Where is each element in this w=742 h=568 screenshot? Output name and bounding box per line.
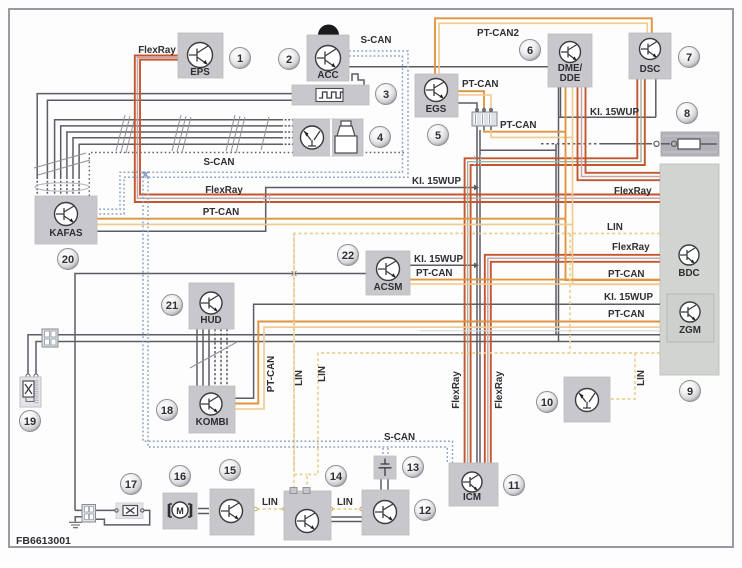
module DME/DDE box [548,34,592,87]
transistor icon BDC [679,245,699,265]
svg-text:FlexRay: FlexRay [614,186,652,197]
wire: FlexRay DME/DDE to BDC [586,87,661,173]
plug connector X19 top [42,329,58,347]
svg-text:PT-CAN: PT-CAN [608,269,644,280]
wire: faint link line to BDC [420,330,660,332]
svg-text:LIN: LIN [262,497,278,508]
svg-text:2: 2 [286,54,292,66]
wire: S-CAN dotted pair ACC to KAFAS [97,56,403,209]
wire: PT-CAN orange risers under DME down to BDC [566,87,661,280]
svg-text:ZGM: ZGM [679,325,701,336]
wire: ground and loop at connector 17 [75,510,150,525]
svg-text:KI. 15WUP: KI. 15WUP [590,107,639,118]
transistor icon KOMBI [200,393,222,415]
svg-text:11: 11 [508,480,520,492]
connector X at item 17 [115,503,144,519]
slash marks on sensor bundle [34,115,269,175]
svg-text:LIN: LIN [607,222,623,233]
module ACSM box [366,251,410,295]
svg-text:S-CAN: S-CAN [203,157,234,168]
wire: PT-CAN long pair KAFAS to DME risers [97,218,566,220]
svg-text:FlexRay: FlexRay [138,45,176,56]
svg-text:PT-CAN: PT-CAN [416,268,452,279]
wire: mechanical double link 14-12 [331,517,362,522]
svg-text:ACC: ACC [317,70,338,81]
wire: PT-CAN pair KOMBI riser to BDC [235,322,660,404]
svg-text:KI. 15WUP: KI. 15WUP [604,292,653,303]
switch unit 19 with X symbol [20,377,41,407]
module EGS box [415,74,458,117]
svg-text:HUD: HUD [200,315,221,326]
svg-text:LIN: LIN [337,497,353,508]
wire: dark pair from connector X19 to BDC [57,334,660,336]
wire: LIN bus horizontal to BDC (upper) [294,234,660,471]
wire: dark KI.15WUP from ACC right to DME/DSC column [349,67,561,118]
wire: dark line ACSM left to riser down to connector 17 [75,274,366,511]
PT-CAN star connector [472,108,497,130]
svg-text:10: 10 [541,397,553,409]
svg-text:FlexRay: FlexRay [451,371,462,409]
wire: FlexRay DSC down-left-down to ICM [465,79,638,463]
transistor icon DSC [640,39,661,60]
svg-text:LIN: LIN [636,370,647,386]
junction marker S-CAN [143,172,149,178]
module EPS box [178,33,223,78]
wire: PT-CAN EGS to connector (orange pair) [458,91,484,108]
svg-text:7: 7 [686,52,692,64]
svg-text:5: 5 [435,130,441,142]
wire: PT-CAN connector down and right to DME risers [484,130,566,132]
wire: KI.15WUP drop from relay node down the page [555,151,557,335]
plug connector at item 17 [82,505,96,523]
svg-text:S-CAN: S-CAN [384,432,415,443]
module ZGM box inside BDC column [667,294,714,342]
module DSC box [629,33,671,79]
transistor icon HUD [200,292,222,314]
HUD-KOMBI parallel lines [197,329,209,386]
svg-text:S-CAN: S-CAN [360,35,391,46]
svg-text:15: 15 [224,465,236,477]
wire: KI.15WUP from KAFAS via riser x266 to central node [97,188,474,232]
slash across HUD-KOMBI lines [190,342,237,368]
svg-text:M: M [176,506,184,516]
module ICM box [449,463,498,506]
svg-text:LIN: LIN [317,366,328,382]
wire: EGS to PT-CAN connector (dark) [458,103,477,108]
bottle icon in box 4 [335,121,357,153]
wire: S-CAN branch down to ICM [143,172,453,463]
motor box 16 [163,493,197,529]
wire bundle: dashed tails at box 4 entry [281,120,293,145]
wire: S-CAN stubs to capacitor 13 [383,448,388,456]
transistor icon DME [560,42,581,63]
wire: KI.15WUP stub ACSM to central node [410,264,474,266]
ACC dome sensor [318,25,339,35]
transistor icon unit 14 [296,510,319,533]
svg-text:KI. 15WUP: KI. 15WUP [412,176,461,187]
module BDC (body domain controller, item 9 area) main box [660,164,719,375]
wire: ACC staircase to pulse box 3 [352,74,364,86]
transistor icon ACSM [377,258,400,281]
module ACC box [307,35,349,81]
wire: KI.15WUP long line KOMBI riser to BDC [235,304,660,398]
transistor icon unit 15 [220,500,243,523]
svg-text:EPS: EPS [190,67,210,78]
transistor icon ZGM [680,302,700,322]
wire: shielded S-CAN dotted from KAFAS to ACC drop [89,153,404,197]
svg-text:LIN: LIN [294,370,305,386]
loop marker ellipse around KAFAS bundle [35,183,89,191]
transistor icon ACC [316,46,341,71]
junction x marker LIN/ACSM line [292,271,297,276]
svg-text:KOMBI: KOMBI [196,417,229,428]
transistor icon EPS [188,43,213,68]
svg-text:FB6613001: FB6613001 [16,535,71,547]
wire: relay feed from central K15 node to relay 8 [541,143,600,145]
svg-text:19: 19 [24,416,36,428]
module KOMBI box [189,386,235,433]
pulse generator box 3 [292,85,369,105]
wire: LIN junction into unit 14 [294,234,307,488]
svg-text:ICM: ICM [463,492,481,503]
wire: capacitor 13 links to unit 12 [381,479,388,490]
svg-text:FlexRay: FlexRay [612,242,650,253]
transistor icon EGS [425,79,448,102]
switch icon unit 10 [576,389,599,412]
svg-text:PT-CAN: PT-CAN [266,356,277,392]
svg-text:4: 4 [377,132,384,144]
svg-text:PT-CAN: PT-CAN [203,207,239,218]
svg-text:14: 14 [330,471,343,483]
svg-text:PT-CAN: PT-CAN [500,120,536,131]
wire: stubs from connector X19 down to switch unit 19 [28,335,43,374]
switch unit box 10 [564,377,610,422]
svg-text:22: 22 [342,250,354,262]
wire bundle: four sensor lines to box 4 [55,120,281,177]
wire: LIN link 15 to 14 [257,508,283,510]
ground symbol at connector 17 [69,522,82,527]
wire: PT-CAN pair ACSM to BDC [410,279,660,281]
svg-text:PT-CAN: PT-CAN [462,79,498,90]
ECU box 14 [284,491,331,540]
svg-text:FlexRay: FlexRay [205,185,243,196]
ECU box 12 [362,490,409,535]
transistor icon ICM [462,472,482,492]
svg-text:8: 8 [684,108,690,120]
svg-text:18: 18 [161,405,173,417]
wire: central dark pair from connector down to ICM [476,130,478,463]
wire: mechanical double link 16-15 [198,509,209,514]
ECU box 15 [210,489,254,535]
svg-text:9: 9 [687,386,693,398]
svg-text:3: 3 [383,89,389,101]
svg-text:FlexRay: FlexRay [494,371,505,409]
svg-text:DDE: DDE [560,73,581,84]
svg-text:BDC: BDC [678,268,699,279]
svg-text:12: 12 [419,505,431,517]
crossing jump mark on FlexRay at KI15 riser [264,193,270,204]
module KAFAS box [35,196,97,244]
capacitor box 13 [374,456,396,479]
svg-text:ACSM: ACSM [374,282,403,293]
wire: FlexRay BDC down to ICM (second riser) [485,255,660,463]
wire: KI.15WUP bus DME-DSC at y117 [559,79,656,342]
svg-text:DSC: DSC [640,64,661,75]
transistor icon unit 12 [374,501,397,524]
svg-text:KAFAS: KAFAS [49,228,83,239]
wire: PT-CAN2 EGS to DSC (orange pair over top) [435,18,652,74]
svg-text:1: 1 [237,53,243,65]
wire: LIN riser link near DME [569,234,571,352]
numbered balls 1-22 [20,40,701,521]
wire bundle: dashed tails into KAFAS top [37,177,79,195]
sensor cluster box 4 [293,119,363,156]
wire bundle: sensor lines elbows into KAFAS, two to pulse box 3 [37,94,292,177]
wire: FlexRay EPS to BDC (triple line over left riser) [135,56,660,203]
svg-text:21: 21 [166,300,178,312]
svg-text:PT-CAN: PT-CAN [608,309,644,320]
svg-text:EGS: EGS [426,104,447,115]
motor icon M in box 16 [169,502,191,518]
svg-text:17: 17 [125,479,137,491]
wire: LIN link 14 to 12 [332,508,361,510]
switch icon in box 4 [301,126,324,149]
relay box item 8 [661,132,719,156]
wire: LIN lower bus to BDC with drop to unit 10 [307,353,660,488]
svg-text:13: 13 [407,462,419,474]
svg-text:20: 20 [62,254,74,266]
svg-text:KI. 15WUP: KI. 15WUP [414,254,463,265]
module HUD box [189,283,234,329]
svg-text:6: 6 [527,45,533,57]
svg-text:16: 16 [174,471,186,483]
svg-text:PT-CAN2: PT-CAN2 [477,28,519,39]
transistor icon KAFAS [55,203,78,226]
